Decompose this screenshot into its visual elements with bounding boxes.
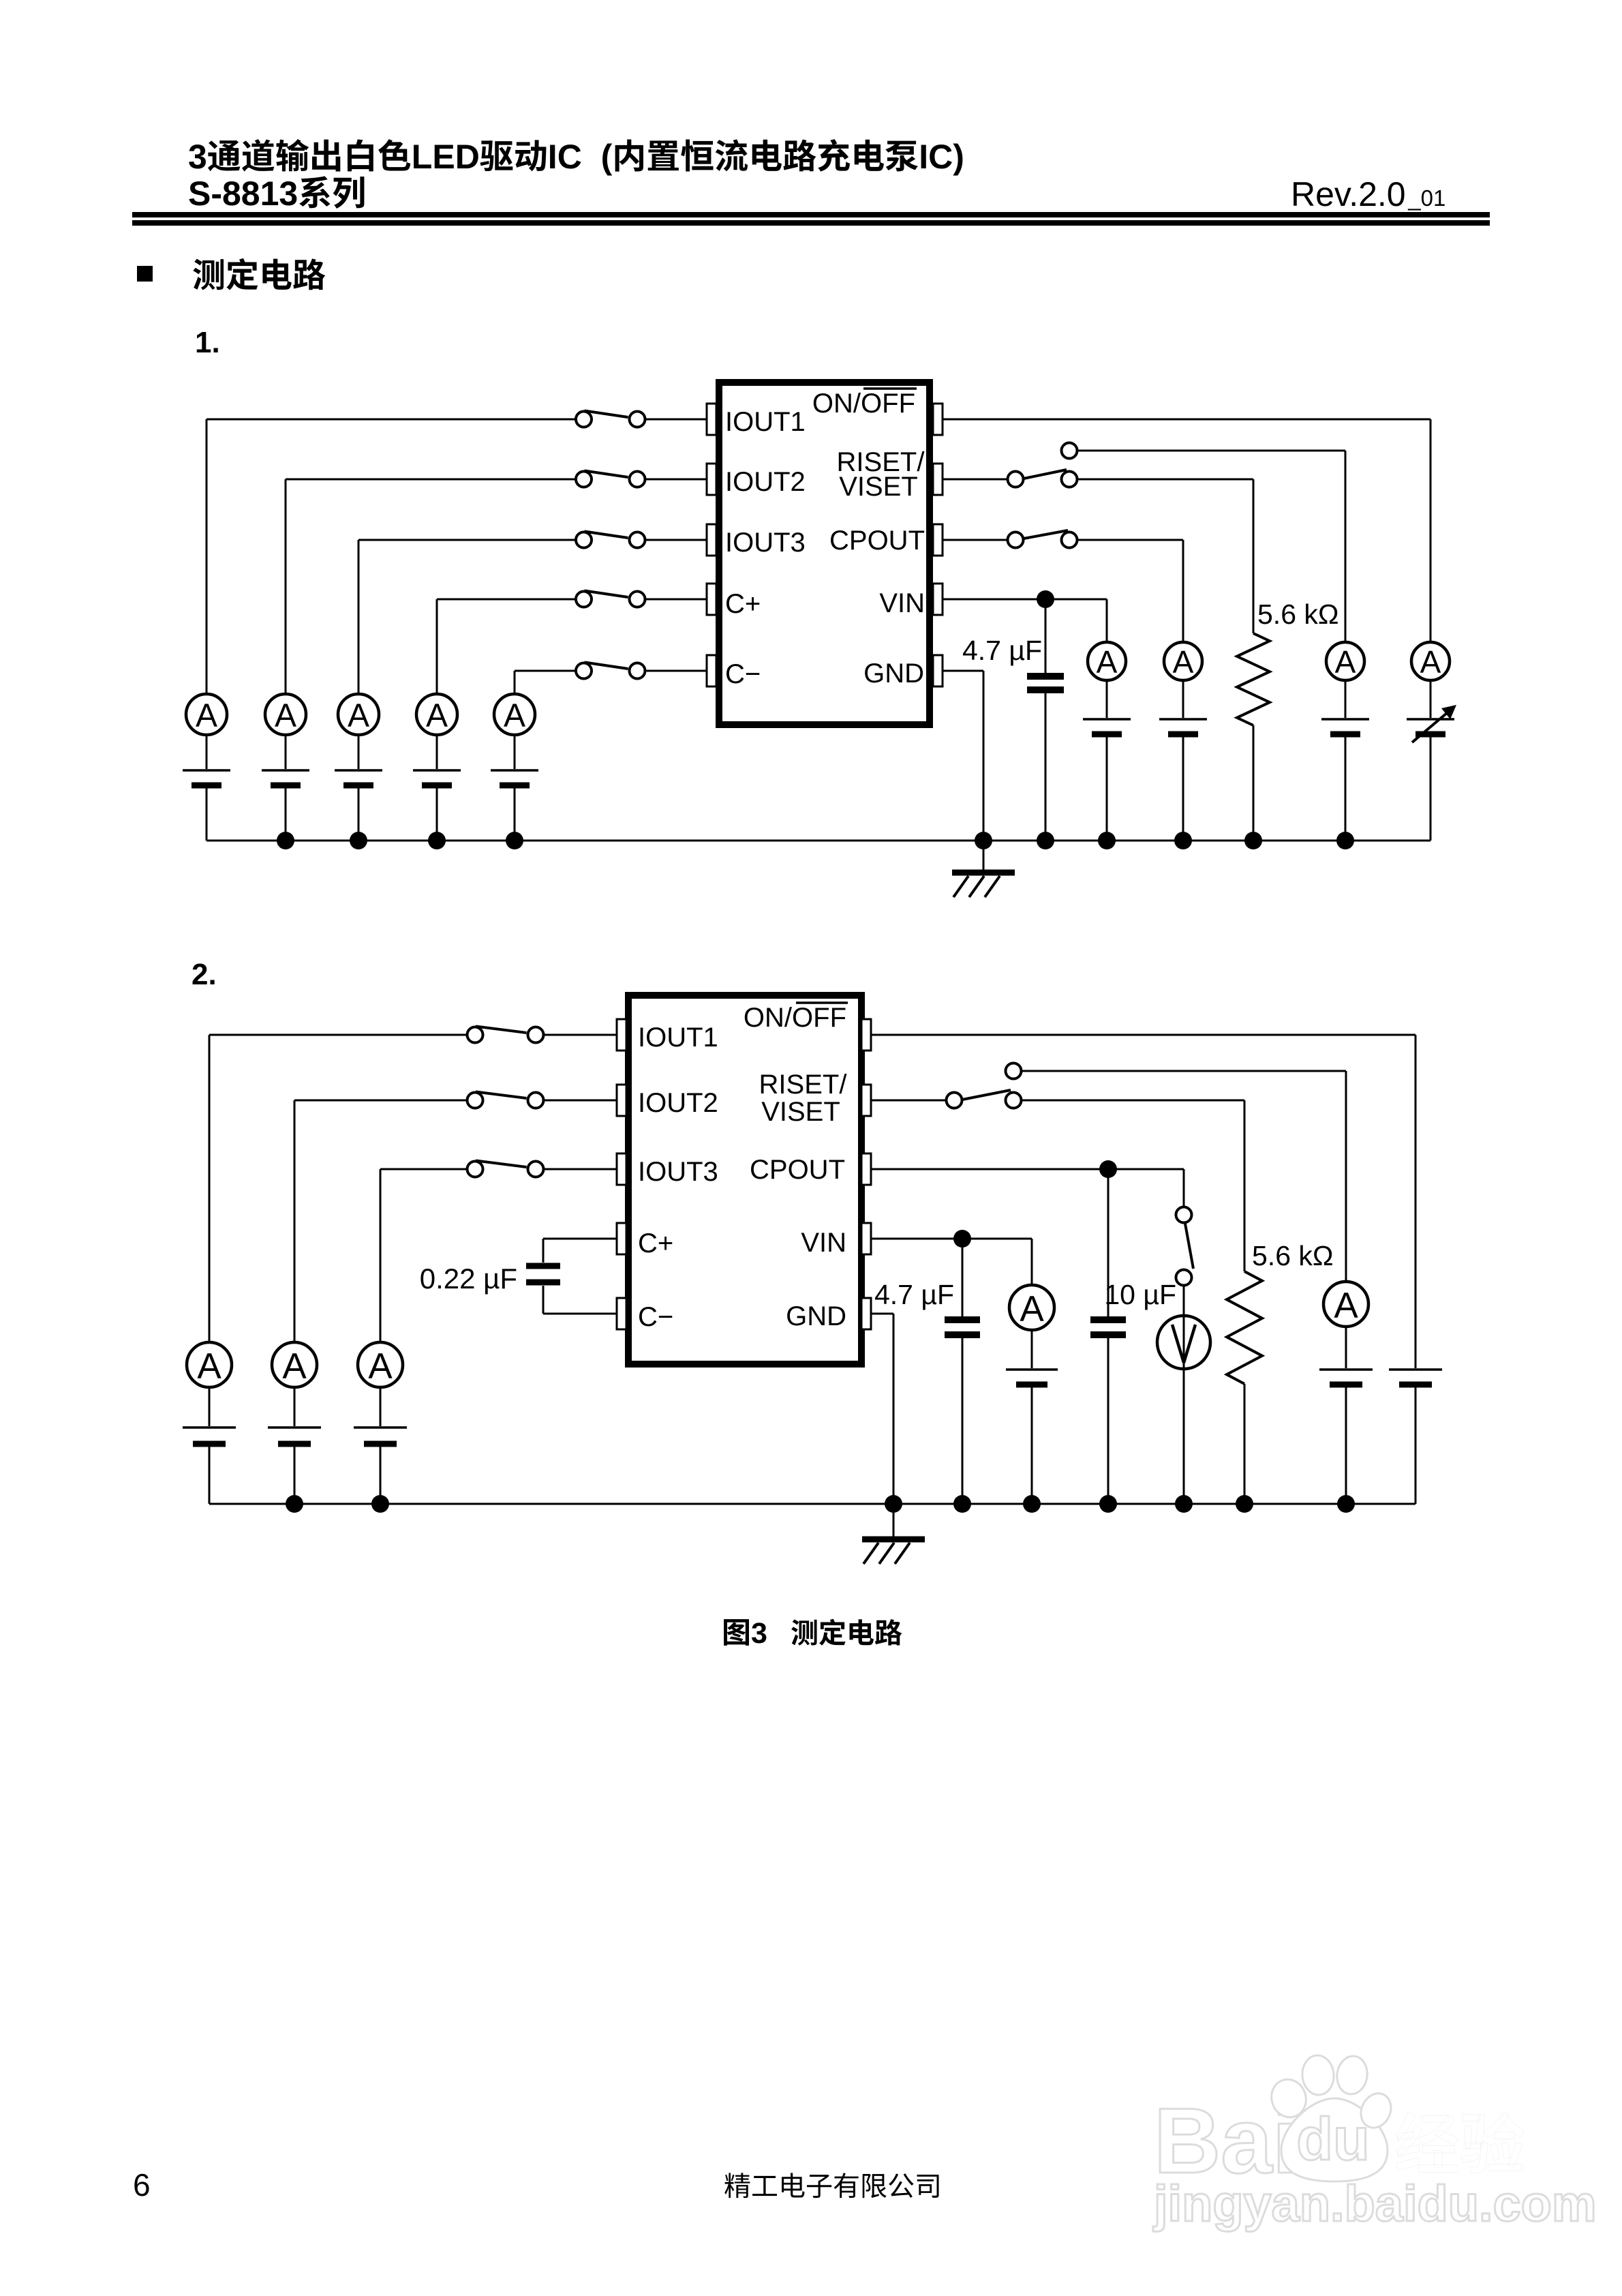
wire VIN pin to ammeter A6 column <box>943 599 1107 601</box>
wire switch to ammeter A7 column <box>1077 539 1184 541</box>
ammeter A6 <box>1088 642 1126 680</box>
switch SW24 (RISET/VISET select, circuit 2) <box>947 1063 1022 1108</box>
wire down to A7 <box>1182 540 1184 642</box>
pin CPOUT (IC2) <box>861 1153 871 1185</box>
capacitor C4 4.7uF <box>945 1320 980 1335</box>
wire ammeter to battery <box>1031 1330 1033 1368</box>
pin CPOUT (IC1) <box>933 524 943 556</box>
wire column vertical <box>294 1100 296 1342</box>
wire switch to pin <box>544 1100 617 1102</box>
wire capacitor C3 to bus <box>1107 1338 1110 1504</box>
svg-text:C+: C+ <box>725 589 761 619</box>
svg-text:4.7 µF: 4.7 µF <box>962 635 1042 666</box>
wire battery to bus <box>380 1447 382 1504</box>
svg-text:A: A <box>197 1346 221 1386</box>
wire lower throw to resistor column <box>1077 479 1254 481</box>
wire <box>893 1504 895 1537</box>
svg-text:A: A <box>348 698 369 734</box>
ground <box>952 873 1015 897</box>
junction <box>885 1495 902 1513</box>
watermark Baidu Jingyan logo <box>1152 2054 1597 2232</box>
svg-text:A: A <box>1020 1288 1044 1329</box>
ammeter A8 <box>1326 642 1364 680</box>
battery under A7 <box>1159 719 1207 734</box>
pin IOUT2 (IC2) <box>617 1085 626 1116</box>
wire switch to pin <box>645 479 707 481</box>
svg-text:VIN: VIN <box>801 1228 846 1258</box>
voltmeter V1 <box>1157 1316 1210 1369</box>
switch SW3 <box>576 532 645 548</box>
battery V23 <box>354 1428 407 1444</box>
wire column vertical <box>436 599 438 694</box>
svg-text:Rev.2.0: Rev.2.0 <box>1291 175 1406 213</box>
ground bus (circuit 2) <box>209 1503 1416 1505</box>
wire GND pin to ground column (circuit 2) <box>871 1313 893 1315</box>
svg-text:0.22 µF: 0.22 µF <box>420 1263 517 1295</box>
wire battery to bus <box>1031 1387 1033 1504</box>
wire resistor to bus <box>1253 725 1255 841</box>
pin VIN (IC2) <box>861 1223 871 1254</box>
ammeter A25 <box>1009 1285 1054 1330</box>
wire ammeter to battery <box>294 1387 296 1426</box>
svg-text:2.: 2. <box>192 958 217 991</box>
wire ammeter to battery <box>1106 680 1108 718</box>
wire column vertical <box>380 1169 382 1342</box>
capacitor C3 10uF <box>1090 1320 1126 1335</box>
pin VIN (IC1) <box>933 584 943 615</box>
IC U1 (S-8813) <box>719 382 930 725</box>
wire capacitor to bus <box>1045 693 1047 841</box>
wire resistor R2 to bus <box>1244 1384 1246 1504</box>
wire switch to pin <box>645 539 707 541</box>
pin RISET/VISET (IC2) <box>861 1085 871 1116</box>
junction <box>371 1495 389 1513</box>
ammeter A23 <box>358 1342 403 1387</box>
wire down to A8 <box>1345 451 1347 642</box>
svg-text:3: 3 <box>188 138 207 176</box>
junction CPOUT/capacitor <box>1099 1160 1117 1178</box>
IC U2 (S-8813) <box>628 995 861 1364</box>
battery V4 <box>413 770 461 785</box>
wire down to ammeter A9 <box>1430 419 1432 642</box>
junction <box>1336 832 1354 849</box>
junction <box>953 1495 971 1513</box>
wire C+ row horizontal (left) <box>437 599 576 601</box>
wire ammeter to battery <box>1345 1327 1347 1368</box>
wire battery to bus <box>358 788 360 841</box>
ground <box>862 1539 925 1564</box>
pin RISET/VISET (IC1) <box>933 464 943 495</box>
switch SW1 <box>576 411 645 427</box>
wire battery to bus <box>209 1447 211 1504</box>
svg-text:IOUT2: IOUT2 <box>638 1088 718 1118</box>
pin ON/OFF (IC2) <box>861 1019 871 1051</box>
wire C+ pin to capacitor C2 <box>543 1238 617 1240</box>
battery V21 <box>183 1428 236 1444</box>
ammeter A7 <box>1164 642 1202 680</box>
battery under A6 <box>1083 719 1131 734</box>
ammeter A5 <box>494 694 535 735</box>
wire column vertical <box>514 671 516 694</box>
pin label ON/OFF with overbar <box>812 389 917 419</box>
capacitor C1 4.7uF <box>1027 676 1064 690</box>
svg-text:GND: GND <box>786 1301 846 1331</box>
junction <box>1175 1495 1193 1513</box>
svg-text:jingyan.baidu.com: jingyan.baidu.com <box>1152 2175 1597 2232</box>
junction <box>1174 832 1192 849</box>
junction <box>506 832 523 849</box>
svg-text:VIN: VIN <box>879 588 925 618</box>
switch SW22 <box>468 1092 544 1108</box>
svg-text:IOUT3: IOUT3 <box>725 528 806 558</box>
battery V26 <box>1319 1370 1373 1385</box>
wire IOUT1 row horizontal (left, circuit 2) <box>209 1034 468 1036</box>
wire ammeter to variable source <box>1430 680 1432 718</box>
ammeter A2 <box>265 694 306 735</box>
svg-text:3: 3 <box>751 1617 767 1650</box>
battery V2 <box>262 770 309 785</box>
wire IOUT2 row horizontal (left, circuit 2) <box>294 1100 468 1102</box>
wire down to bus <box>983 671 985 841</box>
wire IOUT3 row horizontal (left, circuit 2) <box>380 1168 468 1170</box>
pin IOUT3 (IC2) <box>617 1153 626 1185</box>
wire battery to bus <box>285 788 287 841</box>
battery V25 <box>1006 1370 1058 1385</box>
battery V24 <box>1389 1370 1442 1385</box>
svg-text:5.6 kΩ: 5.6 kΩ <box>1257 599 1339 630</box>
pin C- (IC1) <box>707 655 716 686</box>
junction <box>1244 832 1262 849</box>
svg-text:CPOUT: CPOUT <box>750 1155 845 1185</box>
svg-text:IOUT1: IOUT1 <box>725 407 806 437</box>
switch SW4 <box>576 591 645 607</box>
wire ON/OFF to battery column (circuit 2) <box>871 1034 1416 1036</box>
wire VIN pin right (circuit 2) <box>871 1238 1032 1240</box>
ammeter A21 <box>187 1342 232 1387</box>
pin IOUT2 (IC1) <box>707 464 716 495</box>
wire down to ammeter A24 <box>1345 1071 1347 1282</box>
svg-text:A: A <box>426 698 448 734</box>
battery V1 <box>183 770 230 785</box>
svg-text:_01: _01 <box>1407 185 1445 211</box>
wire ammeter to battery <box>1182 680 1184 718</box>
battery V22 <box>268 1428 321 1444</box>
wire upper throw to ammeter A8 column <box>1077 450 1346 452</box>
pin IOUT1 (IC1) <box>707 404 716 435</box>
svg-text:6: 6 <box>133 2167 151 2203</box>
wire C− row horizontal (left) <box>515 670 576 672</box>
switch SW5 <box>576 663 645 679</box>
wire column vertical <box>285 479 287 694</box>
svg-text:ON/OFF: ON/OFF <box>744 1003 846 1033</box>
wire switch to pin <box>544 1168 617 1170</box>
svg-text:A: A <box>1334 1285 1358 1325</box>
wire battery to bus <box>514 788 516 841</box>
pin label RISET/VISET (IC2) <box>759 1070 848 1127</box>
wire down to battery <box>1415 1035 1417 1368</box>
capacitor C2 0.22uF <box>526 1266 560 1282</box>
svg-text:du: du <box>1296 2105 1370 2173</box>
wire down to bus <box>893 1314 895 1504</box>
ammeter A22 <box>272 1342 317 1387</box>
wire GND pin to ground column <box>943 670 983 672</box>
wire RISET/VISET pin to switch <box>943 479 1008 481</box>
svg-text:IC (: IC ( <box>548 138 613 176</box>
wire battery to bus <box>1345 737 1347 841</box>
revision label <box>1291 175 1445 213</box>
wire ON/OFF to variable source column <box>943 419 1430 421</box>
svg-text:VISET: VISET <box>761 1097 840 1127</box>
ammeter A3 <box>338 694 379 735</box>
section heading 测定电路 <box>193 258 325 290</box>
pin label RISET/VISET <box>837 447 925 502</box>
wire switch to pin <box>645 670 707 672</box>
battery under A8 <box>1321 719 1369 734</box>
svg-text:IOUT1: IOUT1 <box>638 1023 718 1053</box>
ammeter A4 <box>416 694 457 735</box>
wire junction to capacitor C1 <box>1045 599 1047 674</box>
wire ammeter to battery <box>1345 680 1347 718</box>
wire down to resistor R2 <box>1244 1100 1246 1271</box>
figure caption 图3 测定电路 <box>724 1617 902 1650</box>
wire junction to capacitor C4 4.7uF <box>962 1239 964 1316</box>
svg-text:ON/OFF: ON/OFF <box>812 389 915 419</box>
wire battery to bus <box>294 1447 296 1504</box>
wire switch to pin <box>645 419 707 421</box>
svg-text:A: A <box>282 1346 307 1386</box>
junction <box>1037 832 1054 849</box>
junction VIN/capacitor <box>1037 590 1054 608</box>
battery V5 <box>491 770 538 785</box>
junction <box>1023 1495 1041 1513</box>
junction <box>286 1495 303 1513</box>
svg-text:GND: GND <box>863 659 924 689</box>
svg-text:S-8813: S-8813 <box>188 175 298 213</box>
footer company name <box>724 2173 938 2198</box>
wire switch to pin <box>544 1034 617 1036</box>
svg-text:C−: C− <box>638 1302 673 1332</box>
junction <box>1098 832 1116 849</box>
switch SW7 (CPOUT) <box>1008 530 1077 548</box>
svg-text:CPOUT: CPOUT <box>829 526 925 556</box>
wire CPOUT pin right (circuit 2) <box>871 1168 1184 1170</box>
wire down to resistor R1 <box>1253 479 1255 633</box>
svg-text:LED: LED <box>412 138 480 176</box>
junction <box>1337 1495 1355 1513</box>
svg-text:IOUT2: IOUT2 <box>725 467 806 497</box>
pin label ON/OFF with overbar (IC2) <box>744 1003 848 1033</box>
wire column vertical <box>209 1035 211 1342</box>
wire IOUT1 row horizontal (left) <box>206 419 576 421</box>
document title line 2 <box>188 175 364 213</box>
wire column vertical <box>206 419 208 694</box>
header double rule <box>132 212 1490 226</box>
wire junction to capacitor C3 10uF <box>1107 1169 1110 1316</box>
wire IOUT3 row horizontal (left) <box>358 539 576 541</box>
wire switch to pin <box>645 599 707 601</box>
svg-text:A: A <box>1097 644 1118 680</box>
pin IOUT3 (IC1) <box>707 524 716 556</box>
svg-text:A: A <box>1335 644 1356 680</box>
switch SW25 (vertical, CPOUT to voltmeter) <box>1176 1207 1194 1286</box>
svg-text:C+: C+ <box>638 1228 673 1258</box>
wire capacitor C2 to C- pin <box>542 1286 545 1314</box>
switch SW23 <box>468 1161 544 1177</box>
svg-text:1.: 1. <box>195 326 220 359</box>
svg-text:A: A <box>275 698 296 734</box>
wire down to A6 <box>1106 599 1108 642</box>
svg-text:A: A <box>1420 644 1441 680</box>
pin GND (IC2) <box>861 1298 871 1329</box>
junction VIN/capacitor <box>953 1230 971 1248</box>
pin C+ (IC1) <box>707 584 716 615</box>
wire column vertical <box>358 540 360 694</box>
wire ammeter to battery <box>206 735 208 769</box>
svg-text:A: A <box>1173 644 1194 680</box>
svg-text:10 µF: 10 µF <box>1104 1279 1176 1310</box>
wire variable source to bus <box>1430 737 1432 841</box>
wire <box>983 841 985 871</box>
switch SW21 <box>468 1027 544 1043</box>
junction <box>350 832 367 849</box>
wire ammeter to battery <box>380 1387 382 1426</box>
wire down to ammeter A25 <box>1031 1239 1033 1285</box>
svg-text:A: A <box>196 698 217 734</box>
variable battery VS1 <box>1407 705 1456 742</box>
svg-text:5.6 kΩ: 5.6 kΩ <box>1252 1240 1334 1271</box>
wire ammeter to battery <box>358 735 360 769</box>
pin IOUT1 (IC2) <box>617 1019 626 1051</box>
svg-text:IOUT3: IOUT3 <box>638 1157 718 1187</box>
wire ammeter to battery <box>209 1387 211 1426</box>
junction <box>1236 1495 1253 1513</box>
wire switch to voltmeter and bus <box>1183 1286 1185 1504</box>
resistor R1 5.6k <box>1237 633 1270 725</box>
wire ammeter to battery <box>514 735 516 769</box>
junction <box>428 832 446 849</box>
svg-text:A: A <box>504 698 525 734</box>
ammeter A1 <box>186 694 227 735</box>
wire battery to bus <box>1106 737 1108 841</box>
wire lower throw to resistor column <box>1022 1100 1245 1102</box>
switch SW2 <box>576 471 645 487</box>
pin C- (IC2) <box>617 1298 626 1329</box>
svg-text:IC): IC) <box>919 138 964 176</box>
wire ammeter to battery <box>436 735 438 769</box>
document title line 1 <box>188 138 964 176</box>
svg-text:A: A <box>368 1346 393 1386</box>
ground bus (circuit 1) <box>206 840 1430 842</box>
pin ON/OFF (IC1) <box>933 404 943 435</box>
ammeter A24 <box>1323 1282 1368 1327</box>
wire RISET/VISET pin to switch (circuit 2) <box>871 1100 947 1102</box>
wire battery to bus <box>206 788 208 841</box>
junction (GND column) <box>975 832 992 849</box>
wire CPOUT pin to switch <box>943 539 1008 541</box>
wire corner down to switch SW25 <box>1183 1169 1185 1207</box>
resistor R2 5.6k <box>1227 1271 1262 1384</box>
switch SW6 (RISET/VISET select) <box>1008 443 1077 487</box>
svg-text:RISET/: RISET/ <box>759 1070 848 1100</box>
pin GND (IC1) <box>933 655 943 686</box>
junction <box>277 832 294 849</box>
wire capacitor C4 to bus <box>962 1338 964 1504</box>
svg-text:4.7 µF: 4.7 µF <box>874 1279 954 1310</box>
pin C+ (IC2) <box>617 1223 626 1254</box>
svg-text:C−: C− <box>725 659 761 689</box>
wire battery to bus <box>436 788 438 841</box>
svg-text:VISET: VISET <box>839 472 918 502</box>
junction <box>1099 1495 1117 1513</box>
wire battery to bus <box>1345 1387 1347 1504</box>
wire IOUT2 row horizontal (left) <box>286 479 576 481</box>
battery V3 <box>335 770 382 785</box>
wire battery to bus <box>1182 737 1184 841</box>
ammeter A9 <box>1411 642 1450 680</box>
wire upper throw to ammeter column <box>1022 1070 1347 1072</box>
wire ammeter to battery <box>285 735 287 769</box>
wire battery to bus corner <box>1415 1387 1417 1504</box>
section bullet <box>137 266 153 282</box>
